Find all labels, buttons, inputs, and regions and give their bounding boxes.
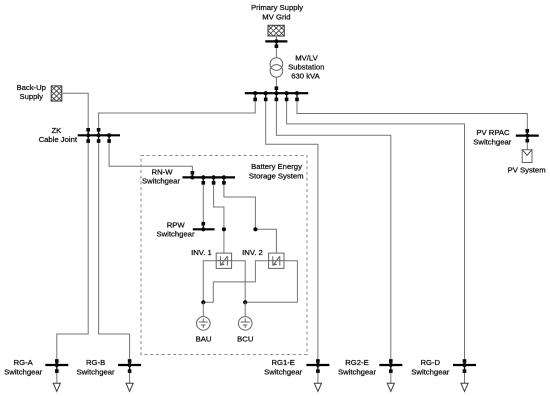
breaker above RG-D bus [463,359,467,363]
breaker above RG-A bus [55,359,59,363]
wire switch stubs (black connector segments) [57,41,528,373]
label: RG-D Switchgear [411,358,449,376]
label: PV RPAC Switchgear [473,128,511,146]
wire RG-D to load arrow [464,367,466,383]
breaker tap 3 [275,98,279,102]
svg-text:Substation: Substation [288,63,324,72]
node on INV1 feeder [222,227,226,231]
node ZK tap mid [97,133,101,137]
svg-text:Switchgear: Switchgear [411,368,449,377]
svg-text:BCU: BCU [237,335,253,344]
svg-text:Switchgear: Switchgear [4,368,42,377]
svg-text:Supply: Supply [19,92,43,101]
svg-text:RN-W: RN-W [152,167,174,176]
svg-text:Storage System: Storage System [249,172,304,181]
node RN-W feed [190,175,194,179]
svg-text:PV RPAC: PV RPAC [476,128,510,137]
wire INV1 right pin to BCU node [232,261,246,303]
svg-text:Battery Energy: Battery Energy [251,162,302,171]
label: RN-W Switchgear [142,167,180,185]
node BAU junction [201,300,205,304]
breaker below PV RPAC bus [526,139,530,143]
HV busbar [265,40,287,42]
wire tap4 to RG-D [287,96,465,365]
label: MV/LV Substation 630 kVA [288,53,324,80]
wire ZK right tap to RN-W switchgear [109,137,192,177]
svg-text:Switchgear: Switchgear [77,368,115,377]
wire back-up supply to ZK bus [62,93,88,135]
label: RG-B Switchgear [77,358,115,376]
label: Back-Up Supply [16,83,45,101]
breaker below HV bus [275,44,279,48]
breaker above RPW bus [202,222,206,226]
breaker RN-W tap INV1 [212,181,216,185]
wire to transformer primary [275,48,277,58]
wire ZK left tap to RG-A [57,137,88,365]
battery energy storage system dashed boundary [141,156,307,355]
svg-text:MV Grid: MV Grid [262,12,290,21]
breaker below RG-D bus [463,369,467,373]
wire RG1-E to load arrow [317,367,319,383]
breaker below ZK bus mid [97,139,101,143]
wire breaker to main LV bus [275,90,277,93]
breaker below ZK bus left [86,139,90,143]
label: ZK Cable Joint [39,126,78,144]
wire RG-A to load arrow [56,367,58,383]
wire INV2 right pin to BCU node [245,261,297,303]
breaker RN-W tap INV2 [222,181,226,185]
RPW switchgear busbar [193,228,215,230]
breaker tap 2 [264,98,268,102]
node RPW bus [201,227,205,231]
wire tap1 to ZK bus [99,96,256,135]
svg-text:RG2-E: RG2-E [345,358,369,367]
node main bus tap 2 [264,91,268,95]
load arrow RG1-E [314,383,321,391]
wire BAU stem [202,302,204,316]
wire grid to HV bus [275,36,277,41]
wire tap5 to PV RPAC [297,96,527,136]
svg-text:INV. 2: INV. 2 [242,248,263,257]
load arrow RG2-E [387,383,394,391]
svg-text:Cable Joint: Cable Joint [39,135,78,144]
node on HV bus [274,39,278,43]
BCU unit symbol [238,317,252,331]
breaker above RG1-E bus [316,359,320,363]
label: RG2-E Switchgear [338,358,376,376]
svg-text:Switchgear: Switchgear [473,137,511,146]
breaker above ZK bus left [86,128,90,132]
wire RG-B to load arrow [129,367,131,383]
RG1-E switchgear busbar [306,364,329,366]
svg-text:RPW: RPW [167,220,186,229]
svg-text:MV/LV: MV/LV [295,53,318,62]
node ZK tap right [107,133,111,137]
wire RG2-E to load arrow [390,367,392,383]
svg-text:RG-A: RG-A [14,358,34,367]
wire tap2 to RG1-E [266,96,318,365]
inverter INV2 [269,253,284,268]
svg-text:RG-B: RG-B [86,358,105,367]
breaker below RG1-E bus [316,369,320,373]
grid source symbol (MV grid) [268,25,284,36]
RG-A switchgear busbar [45,364,68,366]
wire transformer secondary to breaker [275,77,277,86]
load arrow RG-D [461,383,468,391]
transformer T1 MV/LV 630 kVA [270,58,283,77]
svg-text:Switchgear: Switchgear [142,176,180,185]
RN-W switchgear busbar [183,176,236,178]
breaker above RG2-E bus [389,359,393,363]
svg-text:Back-Up: Back-Up [16,83,45,92]
label: RG1-E Switchgear [264,358,302,376]
breaker above ZK bus mid [97,128,101,132]
label: RG-A Switchgear [4,358,42,376]
wire RN-W to INV1 [214,179,224,253]
node PV RPAC bus [525,134,529,138]
load arrow RG-B [126,383,133,391]
node RN-W tap INV1 [212,175,216,179]
ZK cable joint busbar [78,134,120,136]
node RG-B bus [128,363,132,367]
breaker tap 5 [295,98,299,102]
wire tap3 to RG2-E [276,96,390,365]
label: Primary Supply MV Grid [251,3,303,22]
node ZK tap left [86,133,90,137]
node RG-D bus [462,363,466,367]
BAU unit symbol [197,317,211,331]
node BCU junction [243,300,247,304]
breaker above main LV bus [275,86,279,90]
svg-text:PV System: PV System [508,166,546,175]
wire RN-W to INV2 [224,179,277,253]
node on INV2 feeder [253,227,257,231]
PV RPAC switchgear busbar [516,135,539,137]
svg-text:Switchgear: Switchgear [156,229,194,238]
inverter INV1 [216,253,231,268]
breaker tap 4 [285,98,289,102]
node RG1-E bus [316,363,320,367]
node RN-W tap INV2 [222,175,226,179]
breaker above RG-B bus [128,359,132,363]
node main bus tap 1 [253,91,257,95]
back-up supply source symbol [51,86,62,101]
breaker on RN-W feeder [191,171,195,175]
breaker below RG-B bus [128,369,132,373]
node main bus tap 5 [295,91,299,95]
RG2-E switchgear busbar [379,364,402,366]
wire RN-W to RPW switchgear [202,179,204,229]
wire INV1 left pin to BAU node [203,261,216,303]
wire PV RPAC to PV system [526,138,528,150]
node main bus tap 3 [274,91,278,95]
svg-text:RG1-E: RG1-E [271,358,295,367]
svg-text:BAU: BAU [196,335,212,344]
breaker below RG-A bus [55,369,59,373]
node RG2-E bus [389,363,393,367]
svg-text:RG-D: RG-D [420,358,440,367]
breaker RN-W tap RPW [202,181,206,185]
node RN-W tap RPW [201,175,205,179]
wire BCU stem [244,302,246,316]
svg-text:Switchgear: Switchgear [338,368,376,377]
PV system symbol [522,150,532,163]
svg-text:Switchgear: Switchgear [264,368,302,377]
label: RPW Switchgear [156,220,194,238]
breaker below RG2-E bus [389,369,393,373]
node RG-A bus [55,363,59,367]
RG-D switchgear busbar [453,364,476,366]
breaker tap 1 [253,98,257,102]
wire ZK mid tap to RG-B [99,137,130,365]
wire INV2 left pin to BAU node [203,261,268,303]
breaker below ZK bus right [107,139,111,143]
svg-text:INV. 1: INV. 1 [191,248,212,257]
load arrow RG-A [53,383,60,391]
svg-text:Primary Supply: Primary Supply [251,3,303,12]
svg-text:ZK: ZK [51,126,62,135]
svg-text:630 kVA: 630 kVA [291,72,320,81]
main LV busbar [245,92,308,94]
breaker above PV RPAC bus [526,129,530,133]
label: Battery Energy Storage System [249,162,304,180]
node main bus tap 4 [285,91,289,95]
RG-B switchgear busbar [118,364,141,366]
